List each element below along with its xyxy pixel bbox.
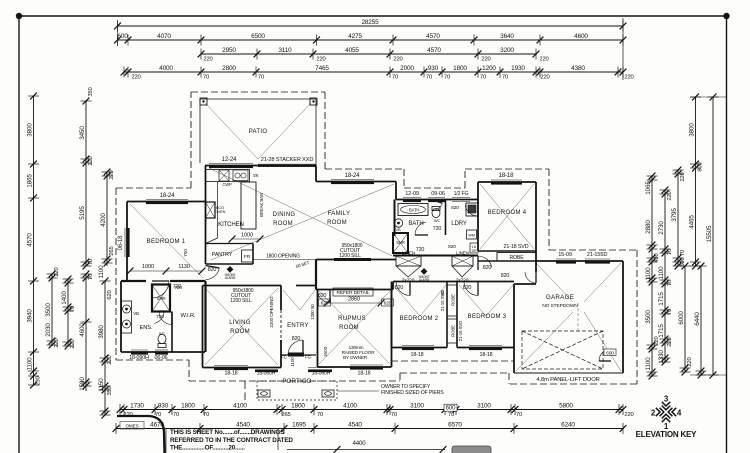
svg-text:3500: 3500 <box>45 303 52 317</box>
svg-text:PATIO: PATIO <box>249 129 268 135</box>
bedroom1 north wall <box>127 201 205 203</box>
living north wall <box>203 285 282 287</box>
svg-text:1500: 1500 <box>323 346 329 357</box>
svg-text:GARAGE: GARAGE <box>546 294 574 301</box>
svg-text:70: 70 <box>88 273 94 280</box>
extension line x117 <box>117 20 119 46</box>
svg-text:LDRY: LDRY <box>451 220 467 227</box>
svg-text:4400: 4400 <box>353 440 367 447</box>
label 600 garage rear door <box>604 349 616 356</box>
stamp box <box>120 422 144 430</box>
svg-text:1000: 1000 <box>142 264 154 270</box>
svg-text:18-18: 18-18 <box>411 352 424 358</box>
ens south wall <box>121 351 205 353</box>
kitchen counter edge <box>217 182 219 238</box>
svg-text:3: 3 <box>664 395 669 404</box>
svg-text:1695: 1695 <box>292 422 306 429</box>
svg-text:820: 820 <box>395 285 404 291</box>
svg-text:21-15 SVD: 21-15 SVD <box>458 321 463 341</box>
svg-text:3100: 3100 <box>477 403 491 410</box>
step wall family-bath <box>395 182 397 200</box>
svg-text:430: 430 <box>654 252 660 262</box>
svg-text:CWP: CWP <box>222 182 232 187</box>
left dim col 1400 <box>61 276 76 350</box>
svg-text:70: 70 <box>173 412 180 418</box>
portico posts <box>258 390 334 397</box>
kitchen counter return <box>206 238 218 244</box>
svg-text:KITCHEN: KITCHEN <box>218 221 244 228</box>
svg-text:1200 SILL: 1200 SILL <box>339 253 361 259</box>
bath west wall <box>394 200 396 237</box>
svg-text:21-18 SVD: 21-18 SVD <box>504 244 529 250</box>
svg-text:VB: VB <box>396 227 401 232</box>
svg-text:2730: 2730 <box>658 221 665 235</box>
svg-text:220: 220 <box>203 56 213 62</box>
bedroom1 west wall <box>126 202 128 282</box>
window 18-18 bed3 <box>469 346 502 351</box>
FR box <box>242 250 254 262</box>
bed3 north wall <box>457 281 514 283</box>
svg-text:4: 4 <box>677 409 682 418</box>
label 950x1800 CUTOUT 1200 SILL living <box>230 288 254 304</box>
svg-text:ALARM: ALARM <box>419 278 430 282</box>
svg-text:1200: 1200 <box>482 65 496 72</box>
svg-text:620: 620 <box>107 289 113 299</box>
entry west wall <box>280 310 282 340</box>
front double door <box>288 353 304 357</box>
bed2 robe wall <box>446 282 448 348</box>
svg-text:3800: 3800 <box>688 123 695 137</box>
window 18-060H right of portico <box>308 368 332 373</box>
window 18-060H left of portico <box>255 368 278 373</box>
pier leader line <box>337 390 379 392</box>
rumpus west wall <box>317 290 319 368</box>
window 06-06 ens <box>155 350 168 355</box>
svg-text:4200: 4200 <box>100 213 107 227</box>
label 130mm RAISED FLOOR BY OWNER <box>342 345 376 360</box>
svg-text:NO STEPDOWN: NO STEPDOWN <box>542 303 578 309</box>
svg-text:06-06: 06-06 <box>155 355 168 361</box>
svg-text:600: 600 <box>606 350 614 356</box>
svg-text:18-18: 18-18 <box>225 371 238 377</box>
eaves dashed outline <box>116 92 637 384</box>
bed3 robe wall <box>456 282 458 348</box>
dim 1000 kitchen <box>229 233 264 243</box>
kitchen west wall <box>205 166 207 265</box>
bath shower <box>393 233 408 253</box>
window 15-09 garage <box>556 259 576 264</box>
label 620 boxed left <box>319 299 331 306</box>
svg-text:4055: 4055 <box>345 47 359 54</box>
svg-text:220: 220 <box>481 56 491 62</box>
garage nw stub <box>535 261 537 272</box>
svg-text:THE..............OF..........2: THE..............OF..........20...... <box>170 444 245 451</box>
window 18-18 bed4 <box>491 180 522 185</box>
ens wc <box>158 331 166 348</box>
svg-text:820: 820 <box>483 265 492 271</box>
svg-text:1130: 1130 <box>178 264 189 270</box>
svg-text:820: 820 <box>292 336 301 342</box>
ens door arc <box>152 312 164 324</box>
bath vb <box>394 219 402 232</box>
svg-text:1100: 1100 <box>290 357 295 367</box>
rumpus south wall <box>318 366 392 368</box>
window 1/2 FG ldry <box>452 198 470 202</box>
svg-text:ROBE: ROBE <box>451 325 456 337</box>
svg-text:ROOM: ROOM <box>230 329 250 335</box>
svg-text:WC: WC <box>159 331 166 336</box>
svg-text:70: 70 <box>480 74 487 80</box>
svg-text:70: 70 <box>258 74 265 80</box>
sheet border top <box>19 15 727 17</box>
kitchen bench top <box>206 170 250 182</box>
pantry south wall <box>206 263 254 265</box>
svg-text:1150: 1150 <box>98 378 105 392</box>
garage cross-brace box <box>522 331 603 369</box>
entry door arc <box>288 340 303 355</box>
front door <box>296 354 305 356</box>
svg-text:2800: 2800 <box>222 65 236 72</box>
linen doors 2 <box>452 266 473 277</box>
svg-text:LIVING: LIVING <box>229 320 251 326</box>
svg-text:OMES: OMES <box>125 423 138 428</box>
bedroom4 west wall <box>477 182 479 251</box>
wir wall <box>171 312 173 353</box>
svg-text:1065: 1065 <box>645 181 652 195</box>
svg-text:3450: 3450 <box>79 126 86 140</box>
left dim col 350/3450/5195 <box>79 86 94 269</box>
living west wall <box>202 286 204 368</box>
svg-text:7465: 7465 <box>315 65 329 72</box>
right dim col 3800/800/4465 <box>688 94 703 270</box>
svg-text:ROBE: ROBE <box>451 294 456 306</box>
step wall patio-family <box>315 166 317 182</box>
svg-text:1200 SILL: 1200 SILL <box>230 298 252 304</box>
entry door sill2 <box>305 354 316 356</box>
boxed label 600 <box>444 404 457 411</box>
svg-text:ENS.: ENS. <box>139 325 153 331</box>
svg-text:1500: 1500 <box>79 377 86 391</box>
svg-text:220: 220 <box>70 338 76 348</box>
window 18-24 family <box>331 180 374 185</box>
svg-text:70: 70 <box>426 74 433 80</box>
svg-text:600: 600 <box>117 33 128 40</box>
svg-text:2x720: 2x720 <box>456 278 469 284</box>
svg-text:OVEN: OVEN <box>215 209 226 214</box>
ens shower <box>152 285 170 312</box>
svg-text:WM: WM <box>468 233 475 238</box>
svg-text:70: 70 <box>203 74 210 80</box>
svg-text:1715: 1715 <box>658 292 665 306</box>
wir east wall <box>204 281 206 352</box>
svg-text:220: 220 <box>54 266 60 276</box>
border corner dot top-right <box>723 13 729 19</box>
svg-text:4600: 4600 <box>79 323 86 337</box>
svg-text:265: 265 <box>281 412 290 418</box>
contract note text <box>166 429 293 453</box>
svg-text:70: 70 <box>392 74 399 80</box>
svg-text:2860: 2860 <box>348 297 360 303</box>
bedroom4 north wall <box>478 181 536 183</box>
svg-text:1800: 1800 <box>181 403 195 410</box>
svg-text:1800 OPENING: 1800 OPENING <box>266 254 300 260</box>
rumpus east wall <box>391 290 393 368</box>
svg-text:220: 220 <box>540 74 550 80</box>
svg-text:1865: 1865 <box>26 174 33 188</box>
linen box 2 <box>452 251 473 267</box>
svg-text:BY OWNER: BY OWNER <box>343 355 368 360</box>
label LIVING ROOM <box>229 320 251 335</box>
svg-text:4275: 4275 <box>348 33 362 40</box>
svg-text:3795: 3795 <box>671 208 678 222</box>
sheet border left <box>18 16 20 453</box>
svg-text:SD: SD <box>440 290 445 296</box>
ens vanity <box>122 301 132 333</box>
bed2 door arc <box>396 282 410 296</box>
garage ridge dash <box>577 303 579 331</box>
svg-text:820: 820 <box>208 267 217 273</box>
svg-text:70: 70 <box>444 74 451 80</box>
svg-text:220: 220 <box>667 190 673 200</box>
svg-text:5800: 5800 <box>559 403 573 410</box>
svg-text:18-18: 18-18 <box>480 352 493 358</box>
ens west wall <box>120 281 122 352</box>
svg-text:W.I.R.: W.I.R. <box>180 313 196 319</box>
svg-text:6570: 6570 <box>448 422 462 429</box>
svg-text:820: 820 <box>451 205 459 211</box>
elevation key symbol <box>651 395 682 432</box>
bed3 south wall <box>457 347 514 349</box>
family-rumpus joint wall <box>315 260 317 290</box>
ldry dw box <box>470 243 478 253</box>
right dim col 6440 <box>694 263 707 379</box>
svg-text:1100: 1100 <box>645 267 652 281</box>
svg-text:6440: 6440 <box>694 312 701 326</box>
linen north wall <box>393 255 478 257</box>
entry door sill <box>281 354 296 356</box>
stacker door band <box>258 164 316 166</box>
svg-text:70: 70 <box>680 249 686 256</box>
window 18-18 rumpus <box>350 365 383 370</box>
dim row 4000/2800/7465/2000/930/1800/1200/1930/4380 <box>121 65 635 80</box>
label RUPMUS ROOM <box>338 316 366 331</box>
svg-text:· BATH: · BATH <box>407 207 420 212</box>
svg-text:PANTRY: PANTRY <box>212 252 233 258</box>
rumpus door arc <box>317 290 330 303</box>
svg-text:265: 265 <box>109 246 115 255</box>
window 12-09 bath <box>403 198 421 203</box>
dim row 600/4070/6500/4275/4570/3640/4600 <box>114 33 626 45</box>
svg-text:18-18: 18-18 <box>358 371 371 377</box>
svg-text:5195: 5195 <box>79 206 86 220</box>
svg-text:1000: 1000 <box>241 233 253 239</box>
bed1 south wall east part <box>170 280 206 282</box>
left dim col 4600/1500 <box>79 271 94 391</box>
svg-text:1/2 FG: 1/2 FG <box>454 191 469 197</box>
kitchen bench island <box>241 182 256 229</box>
bath tub <box>398 204 428 216</box>
svg-text:220: 220 <box>54 337 60 347</box>
right cols bottom connector <box>690 374 727 376</box>
label OWNER TO SPECIFY FINISHED SIZED OF PIERS <box>381 384 444 396</box>
svg-text:4070: 4070 <box>157 33 171 40</box>
dim row 2950/3110/4055/4570/3200 <box>198 47 550 62</box>
kitchen-dining north wall <box>205 165 316 167</box>
svg-text:4600: 4600 <box>574 33 588 40</box>
svg-text:930: 930 <box>428 65 439 72</box>
svg-text:3940: 3940 <box>26 309 33 323</box>
door 820 garage entry <box>525 272 536 283</box>
svg-text:700: 700 <box>183 249 189 257</box>
svg-text:09-06: 09-06 <box>431 191 445 197</box>
window 18-24 bed1 <box>146 200 188 205</box>
svg-text:SK: SK <box>253 173 259 178</box>
garage south wall / panel lift door <box>514 372 623 374</box>
svg-text:4100: 4100 <box>233 403 247 410</box>
step wall <box>121 280 127 282</box>
bed2 nw jog <box>392 282 394 290</box>
svg-text:18-24: 18-24 <box>345 172 361 179</box>
svg-text:BEDROOM 3: BEDROOM 3 <box>468 314 507 320</box>
svg-text:PORTICO: PORTICO <box>282 379 311 385</box>
pantry east wall <box>252 244 254 265</box>
svg-text:FR: FR <box>244 254 251 260</box>
svg-text:4570: 4570 <box>26 233 33 247</box>
svg-text:4540: 4540 <box>236 422 250 429</box>
svg-text:800: 800 <box>698 161 704 171</box>
window 06-18 bed1 <box>125 228 130 257</box>
svg-text:2880: 2880 <box>645 220 652 234</box>
window 12-24 kitchen <box>209 164 253 169</box>
svg-text:720: 720 <box>416 247 425 253</box>
svg-text:VB: VB <box>133 311 139 316</box>
svg-text:70: 70 <box>667 279 673 286</box>
left dim col 3500/2030 <box>45 266 60 348</box>
svg-text:FC: FC <box>281 355 288 360</box>
svg-text:720: 720 <box>174 285 182 291</box>
svg-text:4465: 4465 <box>688 215 695 229</box>
svg-text:220: 220 <box>680 171 686 181</box>
bedroom4 south wall <box>478 250 536 252</box>
label 950x1800 CUTOUT 1200 SILL family <box>339 243 363 259</box>
svg-text:70: 70 <box>391 412 398 418</box>
label FAMILY ROOM <box>327 211 350 226</box>
svg-text:DR: DR <box>472 249 477 253</box>
svg-text:620: 620 <box>384 300 392 306</box>
driveway edge curve <box>117 416 165 453</box>
svg-text:RUPMUS: RUPMUS <box>338 316 366 322</box>
svg-text:06-18: 06-18 <box>117 235 124 251</box>
svg-text:ALARM: ALARM <box>225 276 236 280</box>
svg-text:REFERRED TO IN THE CONTRACT DA: REFERRED TO IN THE CONTRACT DATED <box>170 437 293 444</box>
svg-text:230: 230 <box>36 375 42 385</box>
svg-text:2200 OPENING: 2200 OPENING <box>269 296 274 328</box>
svg-text:2030: 2030 <box>45 323 52 337</box>
smoke alarm hall2 <box>418 268 430 282</box>
bed2 west wall <box>391 282 393 348</box>
svg-text:350: 350 <box>107 385 113 395</box>
label 620 boxed right <box>382 299 394 306</box>
svg-text:4570: 4570 <box>426 33 440 40</box>
bed1 door arc <box>152 281 169 298</box>
svg-text:1800: 1800 <box>453 65 467 72</box>
svg-text:4.8m PANEL-LIFT DOOR: 4.8m PANEL-LIFT DOOR <box>536 377 599 383</box>
svg-text:BEDROOM 1: BEDROOM 1 <box>147 239 186 245</box>
hall door arc near kitchen <box>206 266 220 280</box>
svg-text:2950: 2950 <box>222 47 236 54</box>
svg-text:ROBE: ROBE <box>510 255 525 261</box>
window 18-090H ens <box>131 350 148 355</box>
svg-text:3500: 3500 <box>645 310 652 324</box>
svg-text:28255: 28255 <box>361 19 379 26</box>
living east wall lower <box>280 340 282 368</box>
svg-text:70: 70 <box>317 412 324 418</box>
svg-text:3110: 3110 <box>278 47 292 54</box>
svg-text:FAMILY: FAMILY <box>328 211 351 217</box>
label DINING ROOM <box>273 212 296 227</box>
svg-text:70: 70 <box>203 412 210 418</box>
family north wall <box>316 181 396 183</box>
svg-text:220: 220 <box>667 336 673 346</box>
svg-text:600: 600 <box>446 405 456 412</box>
svg-text:4540: 4540 <box>348 422 362 429</box>
kitchen oven <box>206 202 226 218</box>
wc door arc <box>432 200 442 211</box>
svg-text:THIS IS SHEET No.......of.....: THIS IS SHEET No.......of.......DRAWINGS <box>170 429 284 436</box>
svg-text:1330: 1330 <box>658 350 665 364</box>
svg-text:220: 220 <box>107 354 113 364</box>
svg-text:1930: 1930 <box>511 65 525 72</box>
entry north stub <box>296 285 316 287</box>
svg-text:18-090H: 18-090H <box>129 355 149 361</box>
svg-text:ELEVATION KEY: ELEVATION KEY <box>636 430 698 439</box>
svg-text:220: 220 <box>539 56 549 62</box>
grey box bottom <box>452 446 491 453</box>
label FC FG <box>281 355 311 360</box>
right dim col 15505 <box>706 94 719 379</box>
svg-text:4380: 4380 <box>571 65 585 72</box>
svg-text:6240: 6240 <box>561 422 575 429</box>
svg-text:1800: 1800 <box>291 403 305 410</box>
border corner dot top-left <box>16 13 22 19</box>
svg-text:1730: 1730 <box>130 403 144 410</box>
roof hip lines <box>130 103 621 371</box>
bed1 south wall west part <box>121 280 146 282</box>
svg-text:820: 820 <box>448 244 456 250</box>
dim 2860 rumpus <box>324 297 385 307</box>
sheet border right <box>726 16 728 453</box>
svg-text:BEDROOM 2: BEDROOM 2 <box>400 316 439 322</box>
svg-text:220: 220 <box>109 169 115 179</box>
svg-text:220: 220 <box>316 56 326 62</box>
patio posts <box>200 98 317 105</box>
robe south wall <box>478 260 536 262</box>
svg-text:FINISHED SIZED OF PIERS: FINISHED SIZED OF PIERS <box>381 390 444 396</box>
bed3 door arc <box>464 282 478 296</box>
portico slab dotted <box>257 381 337 400</box>
svg-text:3640: 3640 <box>500 33 514 40</box>
svg-text:REFER DETAIL: REFER DETAIL <box>336 290 369 296</box>
pantry north wall <box>206 243 254 245</box>
bed4 robe box <box>497 253 536 262</box>
svg-text:18-24: 18-24 <box>160 192 176 199</box>
garage north wall <box>536 260 623 262</box>
family south wall <box>316 259 396 261</box>
svg-text:600: 600 <box>680 256 686 266</box>
window 09-06 wc <box>428 198 445 203</box>
svg-text:70: 70 <box>88 258 94 265</box>
svg-text:3200: 3200 <box>500 47 514 54</box>
